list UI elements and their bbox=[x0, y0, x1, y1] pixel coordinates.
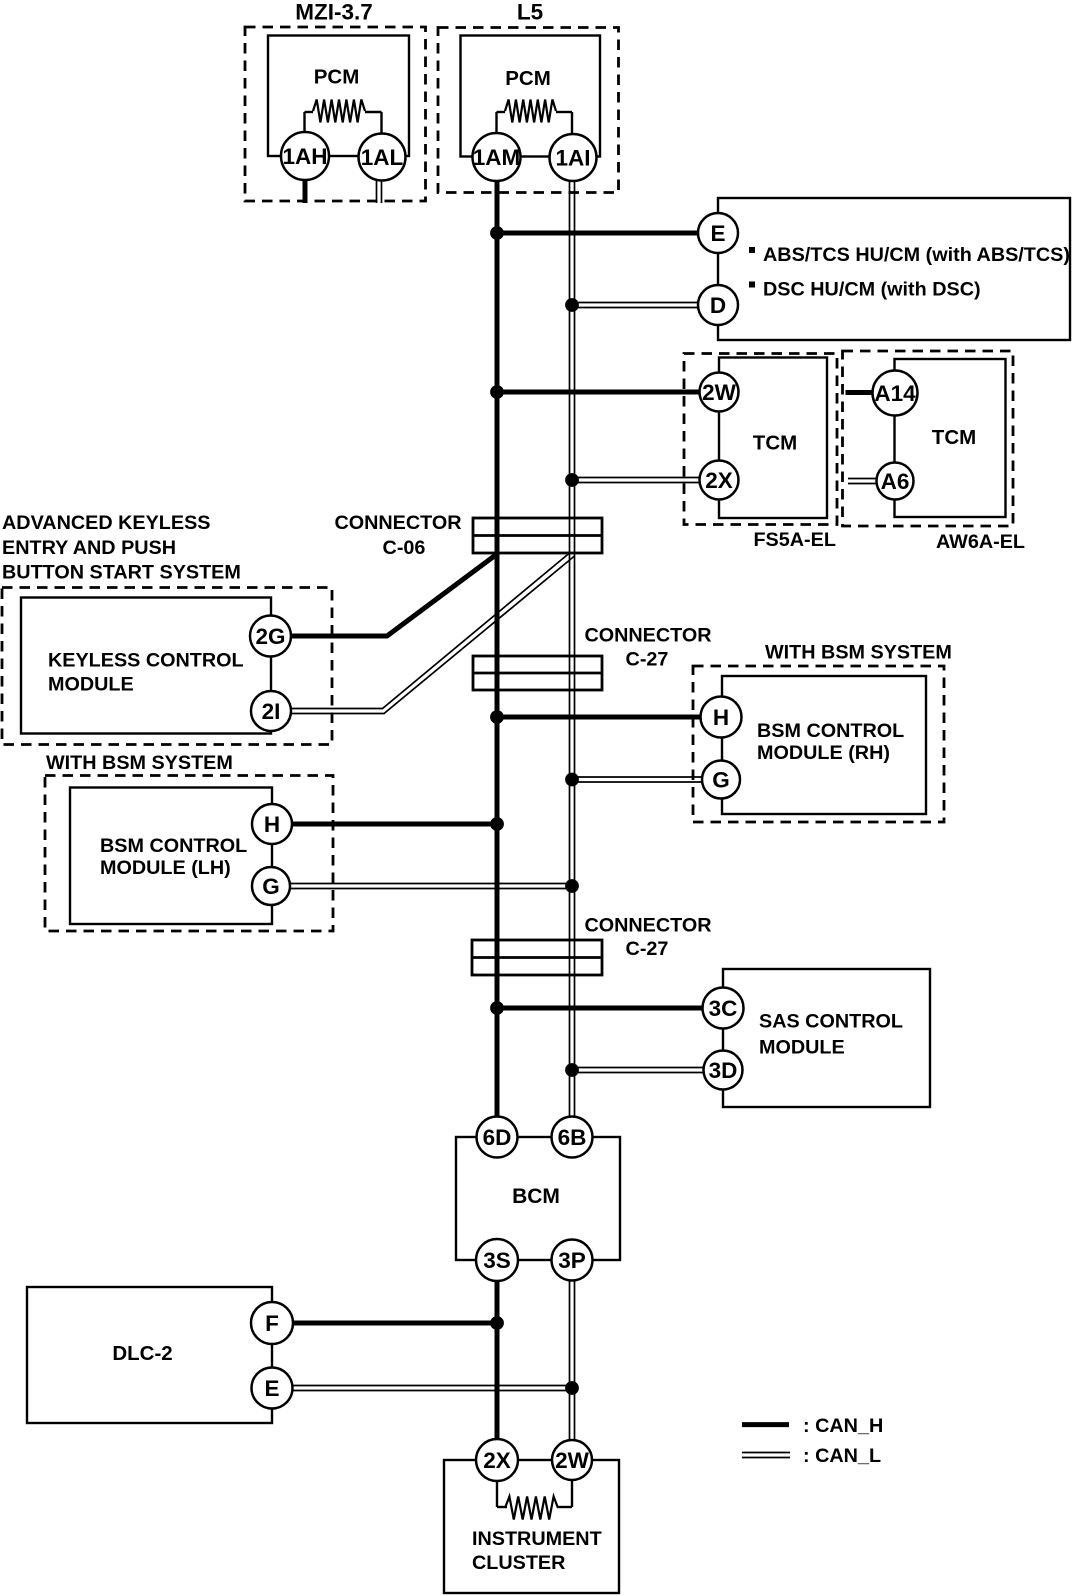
svg-text:FS5A-EL: FS5A-EL bbox=[753, 529, 835, 551]
pin 1AI bbox=[550, 134, 597, 181]
junction node CAN_L / 2X bbox=[565, 473, 579, 487]
svg-text:ENTRY AND PUSH: ENTRY AND PUSH bbox=[2, 537, 176, 559]
svg-text:KEYLESS CONTROL: KEYLESS CONTROL bbox=[48, 650, 244, 672]
pin 6B (BCM) bbox=[552, 1117, 593, 1158]
wire CAN_H to pin H (RH) bbox=[497, 715, 703, 720]
svg-text:E: E bbox=[710, 221, 725, 246]
junction node CAN_H / F bbox=[490, 1316, 504, 1330]
pin 2X (TCM FS5A) bbox=[700, 461, 739, 500]
module PCM (MZI-3.7) box bbox=[268, 36, 409, 157]
wire CAN_H to pin H (LH) bbox=[292, 822, 497, 827]
svg-text:DSC HU/CM (with DSC): DSC HU/CM (with DSC) bbox=[763, 279, 981, 301]
svg-text:2I: 2I bbox=[262, 699, 281, 724]
wire CAN_L main bus (vertical, upper) bbox=[569, 180, 571, 1117]
pin 1AH bbox=[281, 132, 329, 180]
pin F (DLC-2) bbox=[251, 1302, 293, 1344]
wire CAN_L from 2I to connector C-06 (horizontal + diagonal) bbox=[290, 553, 570, 709]
svg-text:ADVANCED KEYLESS: ADVANCED KEYLESS bbox=[2, 512, 210, 534]
junction node CAN_L / G LH bbox=[565, 879, 579, 893]
svg-text:2W: 2W bbox=[702, 380, 737, 405]
wire CAN_L stub below pin 1AL bbox=[376, 181, 378, 203]
svg-text:CLUSTER: CLUSTER bbox=[472, 1552, 565, 1574]
svg-text:H: H bbox=[264, 812, 280, 837]
junction node CAN_H / E bbox=[490, 226, 504, 240]
svg-text:6D: 6D bbox=[483, 1125, 512, 1150]
module TCM (FS5A-EL) box bbox=[719, 358, 827, 519]
junction node CAN_H / H LH bbox=[490, 817, 504, 831]
wire CAN_H to pin 2W bbox=[497, 390, 701, 395]
wire CAN_H stub below pin 1AH bbox=[303, 180, 308, 203]
svg-text:1AI: 1AI bbox=[555, 146, 590, 171]
module BSM CONTROL MODULE (LH) box bbox=[70, 788, 272, 925]
pin D (ABS/DSC HU/CM) bbox=[698, 285, 738, 325]
svg-text:BUTTON START SYSTEM: BUTTON START SYSTEM bbox=[2, 561, 241, 583]
svg-text:: CAN_H: : CAN_H bbox=[803, 1415, 883, 1437]
module BSM CONTROL MODULE (RH) box bbox=[722, 676, 926, 814]
svg-text:CONNECTOR: CONNECTOR bbox=[334, 512, 461, 534]
svg-text:2W: 2W bbox=[555, 1448, 590, 1473]
wire CAN_H main bus (vertical, upper) bbox=[495, 180, 500, 1117]
dashed enclosure TCM AW6A-EL bbox=[843, 351, 1014, 526]
svg-text:MODULE: MODULE bbox=[759, 1036, 845, 1058]
bullet ABS/TCS item bbox=[749, 247, 755, 253]
pin 2X (instrument cluster) bbox=[476, 1439, 518, 1481]
svg-text:G: G bbox=[712, 768, 730, 793]
module TCM (AW6A-EL) box bbox=[895, 359, 1006, 517]
wire CAN_L stub to pin A6 bbox=[848, 478, 878, 480]
svg-text:2G: 2G bbox=[255, 624, 285, 649]
junction node CAN_H / 3C bbox=[490, 1001, 504, 1015]
svg-text:2X: 2X bbox=[483, 1448, 511, 1473]
svg-text:SAS CONTROL: SAS CONTROL bbox=[759, 1010, 903, 1032]
module DLC-2 box bbox=[27, 1287, 272, 1423]
dashed enclosure TCM FS5A-EL bbox=[684, 354, 837, 525]
svg-text:PCM: PCM bbox=[314, 66, 360, 89]
dashed enclosure L5 PCM bbox=[438, 28, 619, 193]
svg-text:CONNECTOR: CONNECTOR bbox=[584, 915, 711, 937]
legend CAN_H sample line bbox=[742, 1422, 789, 1427]
svg-text:3P: 3P bbox=[558, 1248, 586, 1273]
svg-text:G: G bbox=[262, 874, 280, 899]
svg-text:MODULE (LH): MODULE (LH) bbox=[100, 857, 231, 879]
legend CAN_L sample line bbox=[742, 1452, 790, 1454]
pin 3P (BCM) bbox=[552, 1240, 593, 1281]
svg-text:WITH BSM SYSTEM: WITH BSM SYSTEM bbox=[765, 642, 952, 664]
svg-text:DLC-2: DLC-2 bbox=[112, 1342, 172, 1365]
svg-text:: CAN_L: : CAN_L bbox=[803, 1445, 881, 1467]
wire CAN_H to pin F bbox=[293, 1321, 497, 1326]
dashed enclosure BSM LH bbox=[45, 776, 333, 932]
svg-text:MZI-3.7: MZI-3.7 bbox=[295, 0, 373, 25]
svg-text:BSM CONTROL: BSM CONTROL bbox=[100, 835, 247, 857]
junction node CAN_L / G RH bbox=[565, 773, 579, 787]
svg-text:1AH: 1AH bbox=[282, 144, 327, 169]
resistor (CAN terminating, instrument cluster) bbox=[497, 1480, 572, 1520]
svg-text:3C: 3C bbox=[709, 996, 738, 1021]
svg-text:C-27: C-27 bbox=[626, 938, 669, 960]
wire CAN_H to pin 3C bbox=[497, 1006, 705, 1011]
wire CAN_H to pin E bbox=[497, 231, 700, 236]
wire CAN_L to pin E (DLC-2) bbox=[292, 1385, 572, 1387]
svg-text:A6: A6 bbox=[881, 469, 910, 494]
svg-text:ABS/TCS HU/CM (with ABS/TCS): ABS/TCS HU/CM (with ABS/TCS) bbox=[763, 244, 1070, 266]
wire CAN_L to pin 2X bbox=[572, 477, 701, 479]
wire CAN_L to pin G (LH) bbox=[290, 883, 572, 885]
resistor (CAN terminating, L5 PCM) bbox=[497, 100, 573, 135]
svg-text:E: E bbox=[264, 1376, 279, 1401]
pin E (ABS/DSC HU/CM) bbox=[698, 213, 738, 253]
svg-text:INSTRUMENT: INSTRUMENT bbox=[472, 1528, 602, 1550]
module INSTRUMENT CLUSTER box bbox=[444, 1460, 619, 1593]
pin 3D (SAS control module) bbox=[704, 1051, 743, 1090]
module BCM box bbox=[456, 1137, 620, 1260]
svg-text:TCM: TCM bbox=[753, 432, 797, 455]
wire CAN_H stub to pin A14 bbox=[846, 390, 875, 395]
dashed enclosure BSM RH bbox=[693, 666, 944, 822]
svg-text:3S: 3S bbox=[483, 1248, 511, 1273]
svg-text:BCM: BCM bbox=[512, 1185, 560, 1208]
pin A6 (TCM AW6A) bbox=[877, 463, 914, 500]
pin 2I (keyless control module) bbox=[251, 691, 291, 731]
wire CAN_H bus (3S to instrument cluster 2X) bbox=[495, 1280, 500, 1440]
svg-text:MODULE (RH): MODULE (RH) bbox=[757, 742, 890, 764]
connector C-27 symbol (lower) bbox=[472, 940, 602, 975]
pin 2G (keyless control module) bbox=[250, 616, 291, 657]
junction node CAN_L / E DLC-2 bbox=[565, 1381, 579, 1395]
svg-text:H: H bbox=[713, 705, 729, 730]
connector C-06 symbol bbox=[473, 518, 602, 553]
pin A14 (TCM AW6A) bbox=[873, 371, 918, 416]
pin 2W (TCM FS5A) bbox=[700, 373, 739, 412]
pin 1AM bbox=[473, 133, 521, 181]
svg-text:L5: L5 bbox=[517, 0, 543, 25]
pin 3C (SAS control module) bbox=[703, 988, 744, 1029]
resistor (CAN terminating, MZI PCM) bbox=[305, 100, 382, 135]
svg-text:AW6A-EL: AW6A-EL bbox=[936, 531, 1025, 553]
svg-text:D: D bbox=[710, 293, 726, 318]
pin G (BSM LH) bbox=[252, 867, 290, 905]
svg-text:1AM: 1AM bbox=[473, 145, 521, 170]
wire CAN_H from 2G to connector C-06 (horizontal + diagonal) bbox=[291, 554, 497, 636]
svg-text:BSM CONTROL: BSM CONTROL bbox=[757, 720, 904, 742]
wire CAN_L bus (3P to instrument cluster 2W) bbox=[569, 1280, 571, 1441]
module KEYLESS CONTROL MODULE box bbox=[21, 598, 271, 734]
junction node CAN_L / 3D bbox=[565, 1063, 579, 1077]
pin H (BSM LH) bbox=[252, 804, 292, 844]
dashed enclosure keyless system bbox=[2, 588, 332, 745]
svg-text:6B: 6B bbox=[558, 1125, 587, 1150]
pin 3S (BCM) bbox=[476, 1239, 518, 1281]
svg-text:PCM: PCM bbox=[505, 67, 551, 90]
svg-text:C-27: C-27 bbox=[626, 649, 669, 671]
pin E (DLC-2) bbox=[252, 1368, 293, 1409]
module ABS/TCS DSC HU/CM box bbox=[718, 198, 1070, 340]
svg-text:A14: A14 bbox=[874, 381, 916, 406]
bullet DSC item bbox=[749, 282, 755, 288]
module SAS CONTROL MODULE box bbox=[723, 969, 930, 1107]
svg-text:2X: 2X bbox=[705, 468, 733, 493]
junction node CAN_L / D bbox=[565, 298, 579, 312]
svg-text:F: F bbox=[265, 1311, 279, 1336]
junction node CAN_H / 2W bbox=[490, 385, 504, 399]
svg-text:C-06: C-06 bbox=[383, 537, 426, 559]
svg-text:TCM: TCM bbox=[932, 426, 976, 449]
dashed enclosure MZI-3.7 PCM bbox=[245, 27, 426, 201]
junction node CAN_H / H RH bbox=[490, 710, 504, 724]
svg-text:WITH BSM SYSTEM: WITH BSM SYSTEM bbox=[46, 752, 233, 774]
wire CAN_L to pin D bbox=[572, 302, 700, 304]
svg-text:1AL: 1AL bbox=[361, 145, 404, 170]
pin 6D (BCM) bbox=[477, 1117, 518, 1158]
connector C-27 symbol (upper) bbox=[473, 656, 602, 690]
svg-text:MODULE: MODULE bbox=[48, 674, 134, 696]
pin G (BSM RH) bbox=[702, 761, 740, 799]
pin 2W (instrument cluster) bbox=[552, 1440, 592, 1480]
pin 1AL bbox=[359, 134, 406, 181]
wire CAN_L to pin 3D bbox=[572, 1067, 705, 1069]
svg-text:CONNECTOR: CONNECTOR bbox=[584, 625, 711, 647]
pin H (BSM RH) bbox=[701, 697, 742, 738]
module PCM (L5) box bbox=[461, 36, 601, 157]
svg-text:3D: 3D bbox=[709, 1058, 738, 1083]
wire CAN_L to pin G (RH) bbox=[572, 776, 704, 778]
